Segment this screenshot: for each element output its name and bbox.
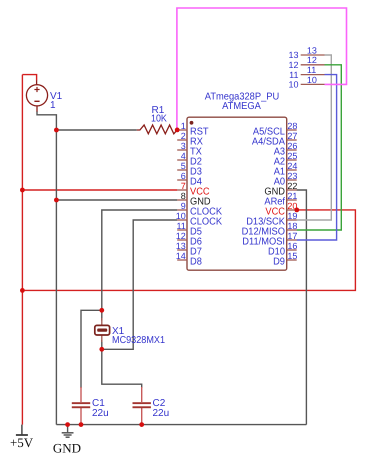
svg-text:13: 13: [307, 45, 317, 55]
crystal X1: [95, 318, 110, 342]
svg-text:28: 28: [287, 121, 297, 131]
svg-text:4: 4: [181, 151, 186, 161]
wire GND from V1 minus down left vertical: [37, 111, 56, 424]
svg-text:1: 1: [50, 100, 56, 111]
IC right pin numbers: [287, 121, 297, 261]
svg-text:25: 25: [287, 151, 297, 161]
wire crystal bottom node to C2: [102, 340, 142, 388]
junction node RST / R1 / net10: [175, 127, 180, 132]
header pin numbers: [288, 50, 298, 89]
svg-text:22: 22: [287, 181, 297, 191]
wire net 11 header to IC pin 17 D11/MOSI: [297, 75, 337, 240]
svg-text:26: 26: [287, 141, 297, 151]
junction node ground symbol tap: [65, 422, 70, 427]
svg-text:7: 7: [181, 181, 186, 191]
wire GND to IC pin 8: [56, 199, 177, 201]
wire IC pin 10 CLOCK to crystal bottom node: [102, 220, 178, 349]
svg-text:D8: D8: [190, 257, 202, 268]
svg-text:21: 21: [287, 191, 297, 201]
wire +5V top loop to V1 plus: [22, 75, 36, 81]
header net labels: [307, 45, 317, 84]
svg-text:14: 14: [176, 251, 186, 261]
svg-text:10: 10: [307, 75, 317, 85]
wire +5V to IC pin 7 VCC: [22, 189, 177, 191]
wire net 10 header around top to RST node: [177, 8, 347, 130]
svg-text:3: 3: [181, 141, 186, 151]
junction node C1 bottom: [79, 422, 84, 427]
svg-text:9: 9: [181, 201, 186, 211]
wire GND from IC pin 22 down right side to bottom rail: [297, 190, 307, 425]
junction node at R1 branch: [54, 128, 59, 133]
IC pin 1 indicator dot: [190, 121, 194, 125]
svg-text:11: 11: [176, 221, 185, 231]
svg-text:13: 13: [288, 50, 298, 60]
capacitor C2: [133, 387, 151, 425]
svg-text:5: 5: [181, 161, 186, 171]
svg-text:+5V: +5V: [10, 435, 34, 450]
junction node +5V to pin7: [20, 188, 25, 193]
IC left pin stubs 1-14: [177, 130, 187, 260]
svg-text:1: 1: [181, 121, 186, 131]
resistor R1: [137, 125, 177, 134]
svg-text:11: 11: [307, 65, 316, 75]
wire net 12 header to IC pin 18 D12/MISO: [297, 65, 342, 230]
IC U1 ATmega328P body: [187, 117, 287, 270]
svg-text:16: 16: [287, 241, 297, 251]
junction node GND pin8 branch: [54, 198, 59, 203]
svg-text:ATMEGA: ATMEGA: [222, 101, 261, 112]
svg-text:22u: 22u: [92, 408, 109, 419]
IC right pin labels: [242, 127, 286, 268]
svg-text:MC9328MX1: MC9328MX1: [112, 335, 165, 346]
wire +5V left vertical rail: [21, 75, 23, 425]
wire crystal top node to C1: [81, 310, 102, 388]
svg-text:GND: GND: [53, 440, 81, 455]
junction node +5V bottom branch: [20, 288, 25, 293]
ground symbol: [62, 425, 74, 438]
svg-text:D9: D9: [273, 257, 285, 268]
svg-text:17: 17: [287, 231, 297, 241]
IC right pin stubs 15-28: [286, 130, 296, 260]
svg-text:24: 24: [287, 161, 297, 171]
svg-text:13: 13: [176, 241, 186, 251]
voltage source V1: [26, 80, 47, 111]
junction node crystal bottom: [99, 347, 104, 352]
junction node crystal top: [99, 308, 104, 313]
svg-text:12: 12: [288, 60, 298, 70]
wire GND bottom rail: [56, 424, 306, 426]
svg-text:23: 23: [287, 171, 297, 181]
wire net 13 header to IC pin 19 D13/SCK: [297, 55, 332, 220]
svg-text:12: 12: [176, 231, 186, 241]
power symbol +5V: [16, 425, 28, 435]
svg-text:6: 6: [181, 171, 186, 181]
svg-text:10: 10: [288, 80, 298, 90]
capacitor C1: [72, 387, 90, 425]
svg-text:18: 18: [287, 221, 297, 231]
svg-text:22u: 22u: [153, 408, 170, 419]
IC left pin numbers: [176, 121, 186, 261]
svg-text:10K: 10K: [151, 114, 167, 125]
junction node pin 20 VCC: [294, 208, 299, 213]
wire IC pin 9 CLOCK to crystal top node: [102, 210, 178, 321]
svg-text:12: 12: [307, 55, 317, 65]
svg-text:19: 19: [287, 211, 297, 221]
IC left pin labels: [190, 127, 222, 268]
header J1 pin stubs: [301, 55, 325, 84]
svg-text:2: 2: [181, 131, 186, 141]
svg-text:11: 11: [289, 70, 298, 80]
svg-text:10: 10: [176, 211, 186, 221]
wire +5V bottom horizontal and right vertical to IC pin 20 VCC: [22, 210, 355, 291]
junction node C2 bottom: [139, 422, 144, 427]
wire to R1 left lead: [56, 129, 136, 131]
svg-text:27: 27: [287, 131, 297, 141]
svg-text:15: 15: [287, 251, 297, 261]
svg-text:8: 8: [181, 191, 186, 201]
